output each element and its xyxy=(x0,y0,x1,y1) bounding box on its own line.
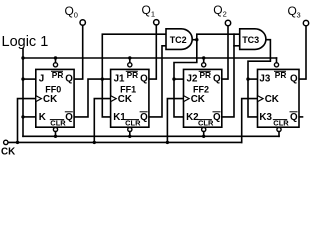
svg-text:Q: Q xyxy=(288,4,297,18)
clear bubble FF1 xyxy=(128,127,132,131)
preset bubble FF2 xyxy=(202,63,206,67)
svg-text:Logic 1: Logic 1 xyxy=(2,34,49,50)
svg-text:Q: Q xyxy=(290,112,298,123)
svg-text:Q: Q xyxy=(290,74,298,85)
wire CLR line along bottom xyxy=(23,135,279,137)
wire J3 input xyxy=(248,78,258,80)
wire Q2 riser and FF2 Q pin xyxy=(222,26,228,79)
svg-text:CK: CK xyxy=(43,94,57,105)
svg-text:J2: J2 xyxy=(187,74,198,85)
wire Q-bar2 riser to TC3 lower input xyxy=(222,34,234,117)
wire CLR stub FF0 xyxy=(55,132,57,137)
svg-text:0: 0 xyxy=(74,11,78,20)
wire Q-bar3 stub xyxy=(299,116,303,118)
svg-text:2: 2 xyxy=(223,10,227,19)
junction J2 node xyxy=(172,77,175,80)
wire CLR stub FF1 xyxy=(129,132,131,137)
junction rail-J0 xyxy=(21,77,24,80)
wire CK riser FF0 xyxy=(18,99,36,143)
svg-text:Q: Q xyxy=(213,112,221,123)
junction CK-FF2 xyxy=(166,141,169,144)
svg-text:FF0: FF0 xyxy=(45,84,61,94)
wire CK riser FF1 xyxy=(94,99,110,143)
flip-flop FF2 xyxy=(184,69,222,127)
wire Q1 riser and FF1 Q pin xyxy=(149,25,156,79)
junction rail-K0 xyxy=(21,115,24,118)
wire J2 input xyxy=(174,78,184,80)
junction PR-FF0 xyxy=(54,56,57,59)
clear bubble FF0 xyxy=(53,127,57,131)
junction CLR-FF0 xyxy=(54,135,57,138)
wire PR stub FF2 xyxy=(203,58,205,63)
flip-flop FF3 xyxy=(258,69,300,127)
preset bubble FF1 xyxy=(128,63,132,67)
svg-text:TC3: TC3 xyxy=(242,35,259,45)
preset bubble FF0 xyxy=(53,63,57,67)
svg-text:J3: J3 xyxy=(259,74,270,85)
svg-text:FF2: FF2 xyxy=(193,84,209,94)
svg-text:K3: K3 xyxy=(259,112,272,123)
svg-text:J1: J1 xyxy=(114,74,125,85)
svg-text:FF1: FF1 xyxy=(120,84,136,94)
wire J0 input xyxy=(23,78,36,80)
wire J1 riser down to K1 xyxy=(102,79,110,117)
wire PR line from rail to FF3 PR stub xyxy=(23,57,277,59)
junction TC2 output xyxy=(195,38,198,41)
wire PR stub FF0 xyxy=(55,58,57,63)
junction J1 node xyxy=(101,77,104,80)
junction CLR-FF1 xyxy=(128,135,131,138)
clear bubble FF2 xyxy=(202,127,206,131)
wire Q0 riser and FF0 Q pin xyxy=(74,25,83,79)
wire CLR stub FF2 xyxy=(203,132,205,137)
svg-text:CK: CK xyxy=(118,94,132,105)
wire J2 riser down to K2 xyxy=(174,79,184,117)
svg-text:CK: CK xyxy=(191,94,205,105)
svg-text:Q: Q xyxy=(65,112,73,123)
wire Q-bar1 riser to TC2 lower input xyxy=(149,46,166,117)
svg-text:Q: Q xyxy=(213,3,222,17)
junction CK-FF0 xyxy=(16,141,19,144)
and-gate TC2 xyxy=(166,29,192,50)
svg-text:CK: CK xyxy=(265,94,279,105)
wire CK riser FF2 xyxy=(167,99,183,143)
flip-flop FF0 xyxy=(36,69,74,127)
wire K0 input xyxy=(23,116,36,118)
wire TC2 output stub xyxy=(192,39,197,41)
wire J1 riser up to TC2 upper input xyxy=(102,34,166,79)
junction PR-FF2 xyxy=(202,56,205,59)
junction J3 node xyxy=(246,77,249,80)
wire TC2 output up to TC3 upper input xyxy=(197,34,240,40)
svg-text:3: 3 xyxy=(297,11,301,20)
wire Q-bar0 to J1 K1 loop xyxy=(74,79,111,117)
clear bubble FF3 xyxy=(277,127,281,131)
wire CK line along bottom xyxy=(9,141,242,143)
junction PR-FF1 xyxy=(128,56,131,59)
svg-text:Q: Q xyxy=(142,3,151,17)
wire CLR stub FF3 xyxy=(278,132,280,137)
wire PR stub FF1 xyxy=(129,58,131,63)
terminal CK input circle xyxy=(4,140,8,144)
wire Logic-1 vertical rail xyxy=(22,49,24,137)
wire TC3 output down-jog to J3 xyxy=(248,40,270,79)
svg-text:J: J xyxy=(39,74,44,85)
junction CLR-FF2 xyxy=(202,135,205,138)
svg-text:Q: Q xyxy=(65,4,74,18)
svg-text:Q: Q xyxy=(65,74,73,85)
wire J3 riser down to K3 xyxy=(248,79,258,117)
and-gate TC3 xyxy=(240,29,266,50)
wire Q3 riser and FF3 Q pin xyxy=(299,26,306,79)
wire TC2 output down-jog to J2 xyxy=(174,40,197,79)
svg-text:K: K xyxy=(39,112,46,123)
svg-text:Q: Q xyxy=(140,74,148,85)
svg-text:CK: CK xyxy=(1,147,15,158)
wire PR stub FF3 xyxy=(276,58,278,63)
svg-text:1: 1 xyxy=(151,9,155,18)
wire CK riser FF3 xyxy=(242,99,258,143)
svg-text:Q: Q xyxy=(213,74,221,85)
preset bubble FF3 xyxy=(274,63,278,67)
junction rail-PR xyxy=(21,56,24,59)
junction CK-FF1 xyxy=(93,141,96,144)
svg-text:TC2: TC2 xyxy=(170,35,187,45)
svg-text:Q: Q xyxy=(140,112,148,123)
flip-flop FF1 xyxy=(111,69,149,127)
